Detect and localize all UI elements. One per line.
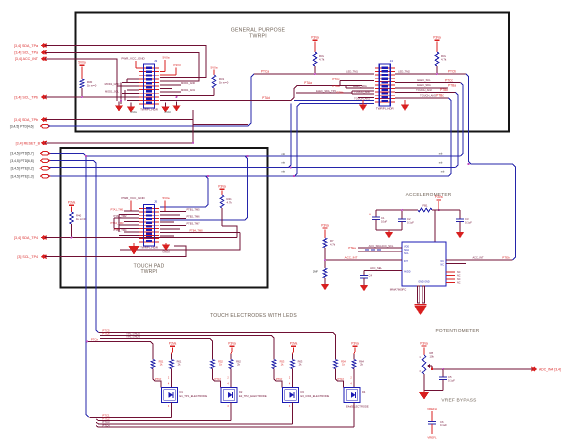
svg-text:ELEC_SDA: ELEC_SDA	[417, 83, 431, 87]
svg-text:PTB2_TM6: PTB2_TM6	[186, 215, 200, 219]
svg-text:PTCf: PTCf	[155, 377, 161, 381]
svg-text:PTCa: PTCa	[261, 69, 269, 73]
svg-text:ACC_INT: ACC_INT	[472, 256, 484, 260]
svg-text:J3: J3	[154, 59, 158, 63]
svg-text:J4: J4	[390, 59, 394, 63]
svg-text:C4: C4	[369, 274, 373, 278]
svg-text:P3Va: P3Va	[433, 36, 441, 40]
svg-text:R8: R8	[430, 351, 434, 355]
svg-text:P3Va: P3Va	[351, 342, 359, 346]
svg-text:MOD1_AN1: MOD1_AN1	[181, 88, 196, 92]
svg-text:4.7k: 4.7k	[319, 57, 325, 61]
svg-text:ADC_IN4 [3,4]: ADC_IN4 [3,4]	[539, 367, 561, 371]
svg-text:ACC_SDA ACC_SCL: ACC_SDA ACC_SCL	[369, 244, 394, 248]
svg-text:C3: C3	[465, 217, 469, 221]
svg-text:TOUCH_AN1: TOUCH_AN1	[354, 96, 370, 100]
svg-text:[3,4] SDA_TPa: [3,4] SDA_TPa	[14, 44, 38, 48]
svg-text:4.7k: 4.7k	[441, 57, 447, 61]
svg-text:TM1_GND3: TM1_GND3	[126, 335, 140, 339]
svg-text:D1: D1	[180, 390, 184, 394]
svg-text:PTA2_TM2: PTA2_TM2	[114, 214, 127, 218]
svg-text:ELEC_SDA: ELEC_SDA	[353, 84, 367, 88]
svg-text:PTA5: PTA5	[114, 227, 121, 231]
svg-text:MMA7660FC: MMA7660FC	[390, 288, 406, 292]
svg-text:NC: NC	[457, 282, 461, 285]
svg-text:PTBa: PTBa	[332, 84, 340, 88]
svg-text:[3,4,5] PTE[0,2]: [3,4,5] PTE[0,2]	[11, 167, 34, 171]
svg-text:PTBb: PTBb	[336, 90, 344, 94]
svg-text:1k m=0: 1k m=0	[219, 80, 229, 84]
svg-text:mb: mb	[439, 152, 443, 156]
svg-text:PTA1_TM1: PTA1_TM1	[111, 207, 124, 211]
svg-text:TWRPI_HDR: TWRPI_HDR	[376, 107, 395, 111]
svg-text:5V0a: 5V0a	[162, 196, 169, 200]
svg-text:C1: C1	[381, 216, 385, 220]
svg-text:TWRPI: TWRPI	[140, 269, 157, 275]
svg-text:PTB1_TM5: PTB1_TM5	[186, 208, 200, 212]
svg-text:PTC4: PTC4	[102, 423, 110, 427]
svg-text:PWR_VCC_GND: PWR_VCC_GND	[121, 196, 145, 200]
svg-text:TOUCH_AN2: TOUCH_AN2	[416, 88, 432, 92]
svg-text:C6: C6	[440, 420, 444, 424]
svg-text:10k: 10k	[430, 354, 435, 358]
svg-text:P3Va: P3Va	[169, 342, 177, 346]
svg-text:[3,4,5] PTD[6,8]: [3,4,5] PTD[6,8]	[10, 159, 33, 163]
svg-text:2MF: 2MF	[313, 270, 319, 274]
svg-text:0.1uF: 0.1uF	[448, 378, 455, 382]
svg-text:[3,4] SCL_TPb: [3,4] SCL_TPb	[14, 95, 38, 99]
svg-text:[3,4,5] PTE[1,3]: [3,4,5] PTE[1,3]	[11, 174, 34, 178]
svg-text:TOUCH ELECTRODES WITH LEDS: TOUCH ELECTRODES WITH LEDS	[210, 313, 297, 319]
svg-text:GENERAL PURPOSE: GENERAL PURPOSE	[231, 27, 286, 33]
svg-text:D2: D2	[239, 390, 243, 394]
svg-text:ACCELEROMETER: ACCELEROMETER	[406, 192, 452, 198]
svg-text:[3,4] SDA_TPb: [3,4] SDA_TPb	[14, 118, 38, 122]
svg-text:POTENTIOMETER: POTENTIOMETER	[436, 328, 480, 334]
svg-text:VREFH: VREFH	[427, 407, 437, 411]
svg-text:5V0a: 5V0a	[210, 66, 217, 70]
svg-text:PTBc: PTBc	[436, 94, 444, 98]
svg-text:PTCf: PTCf	[276, 377, 282, 381]
svg-text:PTCc: PTCc	[332, 77, 340, 81]
svg-text:PTBb: PTBb	[440, 88, 448, 92]
svg-text:4.7k: 4.7k	[330, 242, 336, 246]
svg-text:PTCb: PTCb	[448, 70, 456, 74]
svg-text:GNDd: GNDd	[164, 111, 171, 114]
svg-text:[3,4] SCL_TPa: [3,4] SCL_TPa	[14, 51, 38, 55]
svg-text:PTEb: PTEb	[502, 256, 510, 260]
svg-text:PTA3_TM3: PTA3_TM3	[111, 221, 124, 225]
svg-text:mb: mb	[282, 152, 286, 156]
svg-text:TWRPI_HDR: TWRPI_HDR	[140, 107, 159, 111]
svg-text:C5: C5	[448, 375, 452, 379]
svg-text:mb: mb	[439, 161, 443, 165]
svg-text:P3Va: P3Va	[321, 223, 329, 227]
svg-text:PTCe: PTCe	[91, 337, 99, 341]
svg-text:GNDd: GNDd	[162, 250, 170, 254]
svg-text:P3Va: P3Va	[420, 341, 428, 345]
svg-text:LED_TM1: LED_TM1	[346, 70, 358, 74]
svg-text:PTAd: PTAd	[262, 96, 270, 100]
svg-text:1k m=0: 1k m=0	[87, 83, 97, 87]
svg-text:mb: mb	[282, 160, 286, 164]
svg-text:GNDa: GNDa	[130, 111, 137, 114]
svg-text:ELEC_SDA_TP4: ELEC_SDA_TP4	[316, 89, 336, 93]
svg-text:PTB3_TM7: PTB3_TM7	[186, 222, 200, 226]
svg-text:PTCc: PTCc	[445, 78, 453, 82]
svg-text:PTC6: PTC6	[102, 331, 110, 335]
svg-text:P3Va: P3Va	[218, 185, 226, 189]
svg-text:TWRPI: TWRPI	[249, 34, 267, 40]
svg-text:PWR_VCC_GND: PWR_VCC_GND	[121, 57, 145, 61]
svg-text:[3,4,5] PTD[5,7]: [3,4,5] PTD[5,7]	[10, 152, 33, 156]
svg-text:[3,4] RESET_B: [3,4] RESET_B	[16, 141, 41, 145]
svg-text:MOD1_GND: MOD1_GND	[105, 82, 120, 86]
svg-text:[3] SCL_TP4: [3] SCL_TP4	[17, 255, 38, 259]
svg-text:MOD1_AN0: MOD1_AN0	[181, 81, 196, 85]
svg-text:SCL: SCL	[404, 252, 409, 255]
svg-text:LED_TM2: LED_TM2	[398, 70, 410, 74]
svg-text:0.1uF: 0.1uF	[465, 220, 472, 224]
svg-text:TOUCH_AN0: TOUCH_AN0	[354, 90, 370, 94]
svg-text:VREFL: VREFL	[427, 436, 437, 440]
svg-text:4.7k: 4.7k	[227, 200, 233, 204]
svg-text:PTCf: PTCf	[214, 377, 220, 381]
svg-text:PTCf: PTCf	[337, 377, 343, 381]
svg-text:[3,4] ACC_INT: [3,4] ACC_INT	[15, 57, 39, 61]
svg-text:TOUCH_AN3: TOUCH_AN3	[420, 93, 436, 97]
svg-text:INT: INT	[404, 260, 408, 263]
svg-text:mb: mb	[441, 170, 445, 174]
svg-text:10uF: 10uF	[381, 219, 387, 223]
svg-text:GND GND: GND GND	[418, 281, 430, 284]
svg-text:P3Va: P3Va	[68, 201, 76, 205]
svg-text:E3_CW4_ELECTRODE: E3_CW4_ELECTRODE	[301, 394, 330, 398]
svg-text:+: +	[369, 213, 371, 217]
svg-text:NC: NC	[441, 264, 445, 267]
svg-text:AVDD: AVDD	[404, 271, 411, 274]
svg-text:MOD1_SCL: MOD1_SCL	[105, 90, 120, 94]
svg-text:0.1uF: 0.1uF	[440, 423, 447, 427]
svg-text:mb: mb	[282, 170, 286, 174]
svg-text:0.1uF: 0.1uF	[407, 220, 414, 224]
svg-text:PTEa: PTEa	[348, 246, 356, 250]
svg-text:P3V3: P3V3	[173, 63, 181, 67]
svg-text:P3Va: P3Va	[435, 195, 443, 199]
svg-text:ELEC_SCL: ELEC_SCL	[417, 78, 431, 82]
svg-text:ACC_INT: ACC_INT	[345, 256, 358, 260]
svg-text:PTAa: PTAa	[304, 81, 312, 85]
svg-text:R7: R7	[330, 239, 334, 243]
svg-text:D4: D4	[362, 390, 366, 394]
svg-text:C2: C2	[407, 217, 411, 221]
svg-text:D3: D3	[301, 390, 305, 394]
svg-text:PTBa: PTBa	[448, 83, 456, 87]
svg-text:E2_TP2_ELECTRODE: E2_TP2_ELECTRODE	[239, 394, 267, 398]
svg-text:P3Va: P3Va	[228, 342, 236, 346]
svg-text:ACC_SEL: ACC_SEL	[370, 266, 382, 270]
svg-text:FB1: FB1	[422, 204, 428, 208]
svg-text:[3,4,5] PTD[4,6]: [3,4,5] PTD[4,6]	[10, 125, 34, 129]
svg-text:P3Va: P3Va	[311, 36, 319, 40]
svg-text:P3Va: P3Va	[290, 342, 298, 346]
svg-text:1k m=0: 1k m=0	[76, 217, 86, 221]
svg-text:PTB4_TM8: PTB4_TM8	[189, 229, 203, 233]
svg-text:TWRPI_HDR: TWRPI_HDR	[140, 245, 159, 249]
svg-text:VREF BYPASS: VREF BYPASS	[441, 398, 476, 404]
svg-text:J5: J5	[154, 200, 158, 204]
svg-text:[3,4] SDA_TP4: [3,4] SDA_TP4	[14, 236, 38, 240]
svg-text:E1_TP1_ELECTRODE: E1_TP1_ELECTRODE	[180, 394, 208, 398]
svg-text:5V0a: 5V0a	[78, 61, 86, 65]
svg-text:5V0a: 5V0a	[162, 56, 169, 60]
